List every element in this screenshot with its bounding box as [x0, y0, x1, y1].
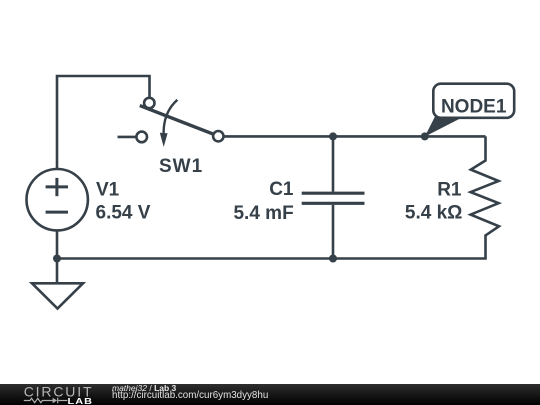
svg-text:NODE1: NODE1 — [441, 97, 507, 118]
svg-text:5.4 mF: 5.4 mF — [233, 203, 293, 224]
svg-text:C1: C1 — [269, 179, 294, 200]
svg-text:SW1: SW1 — [159, 156, 203, 177]
svg-text:R1: R1 — [437, 180, 462, 201]
svg-text:V1: V1 — [96, 180, 120, 201]
svg-text:6.54 V: 6.54 V — [96, 203, 151, 224]
svg-text:LAB: LAB — [68, 397, 94, 405]
svg-text:5.4 kΩ: 5.4 kΩ — [405, 203, 463, 224]
